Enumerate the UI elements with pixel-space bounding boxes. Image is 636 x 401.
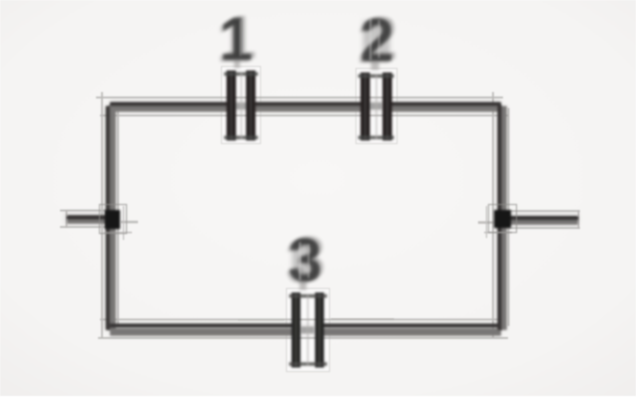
svg-text:1: 1 (219, 5, 253, 73)
